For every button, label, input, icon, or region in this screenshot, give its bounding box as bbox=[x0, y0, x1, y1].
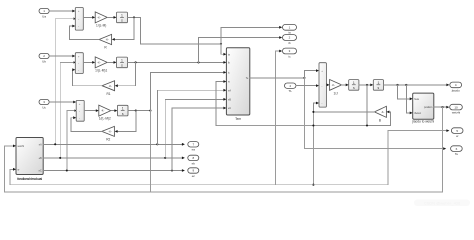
wire B out to sum4 in3 bbox=[313, 102, 374, 112]
gain R2 bbox=[102, 126, 115, 141]
svg-text:s: s bbox=[378, 86, 380, 90]
svg-text:R: R bbox=[104, 46, 107, 50]
wire ic tap down to bottom bus bbox=[149, 111, 151, 192]
svg-text:w: w bbox=[228, 81, 230, 84]
gain B (damping) bbox=[374, 106, 386, 122]
node w junction bbox=[366, 84, 368, 86]
svg-text:-: - bbox=[79, 109, 80, 113]
outport 8 eb bbox=[188, 155, 199, 165]
svg-text:-: - bbox=[321, 102, 322, 106]
node ib junction bbox=[135, 61, 137, 63]
sum block Sum4 bbox=[319, 63, 326, 107]
svg-text:R1: R1 bbox=[106, 92, 110, 96]
node eB tap to Tem bbox=[164, 157, 166, 159]
wire Ub to sum2 bbox=[49, 55, 75, 58]
gain 1/J bbox=[330, 80, 342, 96]
wire R2 out to sum3 in3 bbox=[71, 116, 102, 131]
outport 2 ib bbox=[283, 35, 297, 45]
svg-text:1: 1 bbox=[121, 58, 123, 62]
svg-text:1: 1 bbox=[122, 107, 124, 111]
svg-text:1/(L-M)1: 1/(L-M)1 bbox=[95, 68, 107, 72]
svg-text:eC: eC bbox=[228, 107, 231, 110]
wire gain1 to integrator1 bbox=[107, 16, 116, 19]
wire eC bbox=[43, 169, 185, 172]
gain 1/(L-M) bbox=[95, 12, 107, 27]
integrator 1/s (row1) bbox=[117, 12, 128, 23]
svg-text:s: s bbox=[121, 64, 123, 68]
node Te junction bbox=[303, 77, 305, 79]
wire theta bottom bus bbox=[5, 145, 443, 192]
wire ia down into Tem in1 bbox=[221, 44, 226, 56]
wire position feedback down bbox=[442, 107, 444, 192]
svg-text:-K-: -K- bbox=[97, 61, 101, 65]
svg-text:-K-: -K- bbox=[108, 130, 112, 134]
wire integrator3 out bbox=[128, 110, 150, 112]
wire Uc to sum3 bbox=[49, 101, 76, 104]
wire gain3 to integrator3 bbox=[111, 109, 118, 112]
svg-text:-K-: -K- bbox=[106, 38, 110, 42]
svg-text:R2: R2 bbox=[106, 138, 110, 142]
wire R2 feedback down (row3) bbox=[115, 111, 136, 133]
svg-text:jiaodu: jiaodu bbox=[451, 88, 460, 92]
svg-text:weizhi: weizhi bbox=[452, 111, 461, 115]
integrator 1/s (row3) bbox=[117, 105, 128, 116]
node w bus junction bbox=[312, 184, 314, 186]
subsystem back-EMF module bbox=[16, 138, 43, 182]
wire eA bbox=[43, 143, 185, 146]
wire Te up to sum4 in1 bbox=[304, 69, 319, 78]
wire gain2 to integrator2 bbox=[107, 61, 116, 64]
wire theta to block in2 bbox=[406, 85, 412, 114]
sum block Sum3 bbox=[76, 100, 84, 121]
sum block Sum1 bbox=[75, 8, 83, 31]
svg-text:eb: eb bbox=[192, 161, 196, 165]
svg-text:1: 1 bbox=[353, 81, 355, 85]
wire position out bbox=[434, 106, 450, 109]
subsystem jiaodu-to-weizhi bbox=[411, 93, 434, 124]
wire sum3 to gain3 bbox=[84, 109, 99, 112]
svg-text:ec: ec bbox=[192, 174, 196, 178]
wire theta to outport jiaodu bbox=[384, 84, 450, 87]
svg-text:freia: freia bbox=[414, 98, 419, 101]
wire ia to Tem in1 and outport bbox=[140, 17, 221, 43]
wire R1 feedback down (row2) bbox=[115, 62, 136, 87]
wire sum4 to gain 1/J bbox=[326, 84, 329, 87]
svg-text:1: 1 bbox=[121, 13, 123, 17]
wire R feedback down (row1) bbox=[112, 17, 134, 40]
wire integrator1 out to junction bbox=[128, 16, 141, 18]
node eC tap to Tem bbox=[171, 169, 173, 171]
wire integrator4 to integrator5 bbox=[359, 84, 373, 87]
wire ib up to outport 2 bbox=[199, 36, 283, 62]
svg-text:Tem: Tem bbox=[235, 117, 241, 121]
svg-text:ic: ic bbox=[288, 55, 291, 59]
watermark bbox=[414, 200, 470, 207]
inport 4 TL bbox=[285, 83, 296, 93]
svg-text:-: - bbox=[78, 68, 79, 72]
svg-text:weizhi: weizhi bbox=[18, 145, 25, 148]
wire R out to sum1 in3 bbox=[69, 25, 99, 40]
svg-text:1/(L-M)2: 1/(L-M)2 bbox=[99, 117, 111, 121]
svg-text:1: 1 bbox=[377, 81, 379, 85]
wire ic up to Tem in3 bbox=[150, 71, 226, 111]
wire w distribution line bbox=[367, 85, 390, 126]
wire R1 out to sum2 in3 bbox=[72, 68, 102, 85]
svg-text:Ub: Ub bbox=[42, 59, 46, 63]
wire ic outport feed (vertical from bottom) bbox=[276, 50, 283, 185]
gain 1/(L-M)2 bbox=[99, 105, 111, 120]
gain R (row1 feedback) bbox=[99, 34, 112, 49]
svg-text:theta1: theta1 bbox=[414, 112, 421, 115]
svg-text:-K-: -K- bbox=[101, 109, 105, 113]
sum block Sum2 bbox=[75, 53, 83, 74]
inport 1 Ua bbox=[39, 8, 49, 18]
gain 1/(L-M)1 bbox=[95, 57, 107, 72]
wire 1/J to integrator4 bbox=[342, 84, 349, 87]
svg-text:-K-: -K- bbox=[97, 16, 101, 20]
svg-text:jiaodu to weizhi: jiaodu to weizhi bbox=[411, 120, 434, 124]
outport 10 weizhi bbox=[450, 104, 463, 114]
svg-text:-: - bbox=[78, 61, 79, 65]
svg-text:eA: eA bbox=[39, 143, 42, 146]
svg-text:ia: ia bbox=[288, 31, 291, 35]
wire theta to block in1 bbox=[398, 85, 413, 100]
svg-text:fandianshimokuai: fandianshimokuai bbox=[17, 177, 42, 181]
node w line junction bbox=[366, 124, 368, 126]
svg-text:CSDN @weixin_438: CSDN @weixin_438 bbox=[424, 200, 461, 205]
wire w line down to bottom bus bbox=[312, 112, 314, 185]
outport 1 ia bbox=[283, 24, 297, 34]
svg-text:w: w bbox=[456, 134, 459, 138]
svg-text:ea: ea bbox=[192, 148, 196, 152]
svg-text:eB: eB bbox=[228, 98, 231, 101]
svg-text:eA: eA bbox=[228, 89, 231, 92]
svg-text:ib: ib bbox=[288, 41, 291, 45]
wire w to gain B bbox=[386, 111, 390, 126]
node eA tap to Tem bbox=[156, 143, 158, 145]
node w line junction mid bbox=[312, 124, 314, 126]
wire sum1 in2 from eA bbox=[55, 17, 75, 144]
svg-text:eC: eC bbox=[39, 170, 42, 173]
wire eB up to Tem in6 bbox=[165, 98, 226, 158]
svg-text:-: - bbox=[78, 24, 79, 28]
svg-text:-K-: -K- bbox=[381, 110, 385, 114]
outport 4 jiaodu bbox=[450, 82, 462, 92]
svg-text:w: w bbox=[18, 168, 20, 171]
wire w up to Tem in4 bbox=[216, 80, 226, 125]
wire sum1 to gain1 bbox=[83, 16, 95, 19]
node ic junction bbox=[135, 110, 137, 112]
svg-text:Te: Te bbox=[455, 152, 459, 156]
inport 2 Ub bbox=[39, 53, 49, 63]
wire w bus to back-EMF in2 bbox=[10, 168, 16, 185]
integrator 1/s (row2) bbox=[117, 57, 128, 68]
wire integrator2 out to Tem in2 bbox=[128, 61, 227, 64]
svg-text:Uc: Uc bbox=[42, 105, 46, 109]
wire eC up to Tem in7 bbox=[172, 107, 226, 171]
node eA tap to sum1 bbox=[54, 143, 56, 145]
node eC tap to sum3 bbox=[66, 169, 68, 171]
wire eA up to Tem in5 bbox=[157, 89, 226, 145]
node theta junction 2 bbox=[405, 84, 407, 86]
integrator 1/s (angle) bbox=[373, 80, 383, 91]
svg-text:position: position bbox=[424, 106, 433, 109]
svg-text:s: s bbox=[353, 86, 355, 90]
svg-text:Ua: Ua bbox=[42, 14, 46, 18]
svg-text:B: B bbox=[379, 118, 381, 122]
wire sum2 in2 from eB bbox=[60, 61, 75, 158]
outport 9 ec bbox=[188, 168, 199, 178]
node position junction bbox=[441, 106, 443, 108]
subsystem Tem bbox=[226, 48, 249, 121]
inport 3 Uc bbox=[39, 99, 49, 109]
svg-text:-K-: -K- bbox=[109, 84, 113, 88]
gain R1 bbox=[102, 81, 115, 96]
wire eB bbox=[43, 157, 185, 160]
svg-text:-K-: -K- bbox=[332, 83, 336, 87]
outport 5 w bbox=[451, 128, 463, 138]
svg-text:-: - bbox=[79, 116, 80, 120]
svg-text:-: - bbox=[321, 84, 322, 88]
svg-text:s: s bbox=[121, 19, 123, 23]
outport 7 ea bbox=[188, 142, 199, 152]
outport 3 ic bbox=[283, 48, 297, 58]
node eB tap to sum2 bbox=[59, 157, 61, 159]
wire ia up to outport 1 bbox=[221, 26, 282, 44]
node ic tap bbox=[149, 110, 151, 112]
integrator 1/s (speed) bbox=[349, 80, 359, 91]
wire Ua to sum1 bbox=[49, 10, 75, 13]
wire Te down to outport Te bbox=[304, 78, 446, 150]
svg-text:1/J: 1/J bbox=[333, 91, 338, 95]
svg-text:TL: TL bbox=[288, 89, 292, 93]
wire TL to sum4 in2 bbox=[296, 84, 319, 87]
node ia junction bbox=[133, 16, 135, 18]
wire sum3 in2 from eC bbox=[67, 109, 76, 170]
wire w bottom bus bbox=[10, 129, 450, 185]
node B tee bbox=[312, 111, 314, 113]
node ib tap bbox=[197, 61, 199, 63]
svg-text:10: 10 bbox=[454, 105, 458, 109]
svg-text:1/(L-M): 1/(L-M) bbox=[96, 23, 106, 27]
outport 6 Te bbox=[451, 146, 463, 156]
svg-text:eB: eB bbox=[39, 157, 42, 160]
wire Te out of Tem bbox=[250, 77, 305, 79]
node theta junction 1 bbox=[396, 84, 398, 86]
wire sum2 to gain2 bbox=[83, 61, 95, 64]
svg-text:-: - bbox=[78, 17, 79, 21]
svg-text:s: s bbox=[122, 112, 124, 116]
